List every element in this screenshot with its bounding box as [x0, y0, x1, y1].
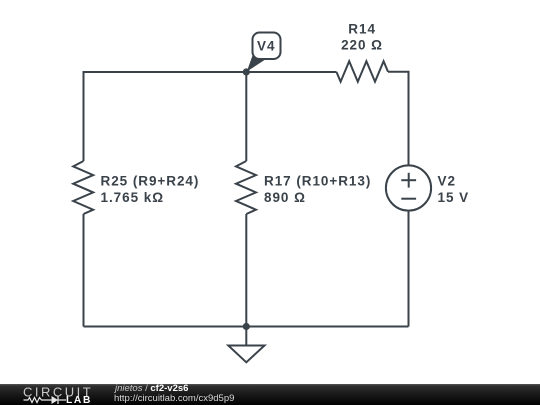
- wire right vertical below V2: [408, 211, 410, 327]
- footer bar: [0, 384, 540, 405]
- svg-text:15 V: 15 V: [438, 190, 470, 205]
- svg-text:890 Ω: 890 Ω: [264, 190, 306, 205]
- wire middle vertical (junction V4 down to R17): [245, 72, 247, 161]
- node flag V4 balloon: [247, 33, 281, 72]
- wire bottom: [84, 326, 409, 328]
- svg-text:V4: V4: [257, 39, 275, 54]
- node junction dot bottom (ground): [243, 323, 250, 330]
- svg-text:R14: R14: [348, 22, 376, 37]
- resistor R25: [73, 161, 93, 214]
- resistor R14: [337, 61, 389, 81]
- wire middle vertical below R17: [245, 214, 247, 327]
- ground: [245, 327, 247, 346]
- svg-text:220 Ω: 220 Ω: [341, 38, 383, 53]
- voltage source V2: [386, 165, 431, 210]
- wire top-right from R14 to corner down to V2: [388, 72, 409, 166]
- svg-text:LAB: LAB: [66, 395, 92, 405]
- wire left vertical below R25: [83, 214, 85, 327]
- node junction dot top (V4): [243, 68, 250, 75]
- circuitlab logo: [0, 384, 112, 405]
- svg-text:1.765 kΩ: 1.765 kΩ: [101, 190, 164, 205]
- svg-text:V2: V2: [438, 174, 456, 189]
- wire top (node V4 net): [84, 72, 337, 161]
- svg-text:R25 (R9+R24): R25 (R9+R24): [101, 174, 200, 189]
- resistor R17: [236, 161, 256, 214]
- svg-text:R17 (R10+R13): R17 (R10+R13): [264, 174, 371, 189]
